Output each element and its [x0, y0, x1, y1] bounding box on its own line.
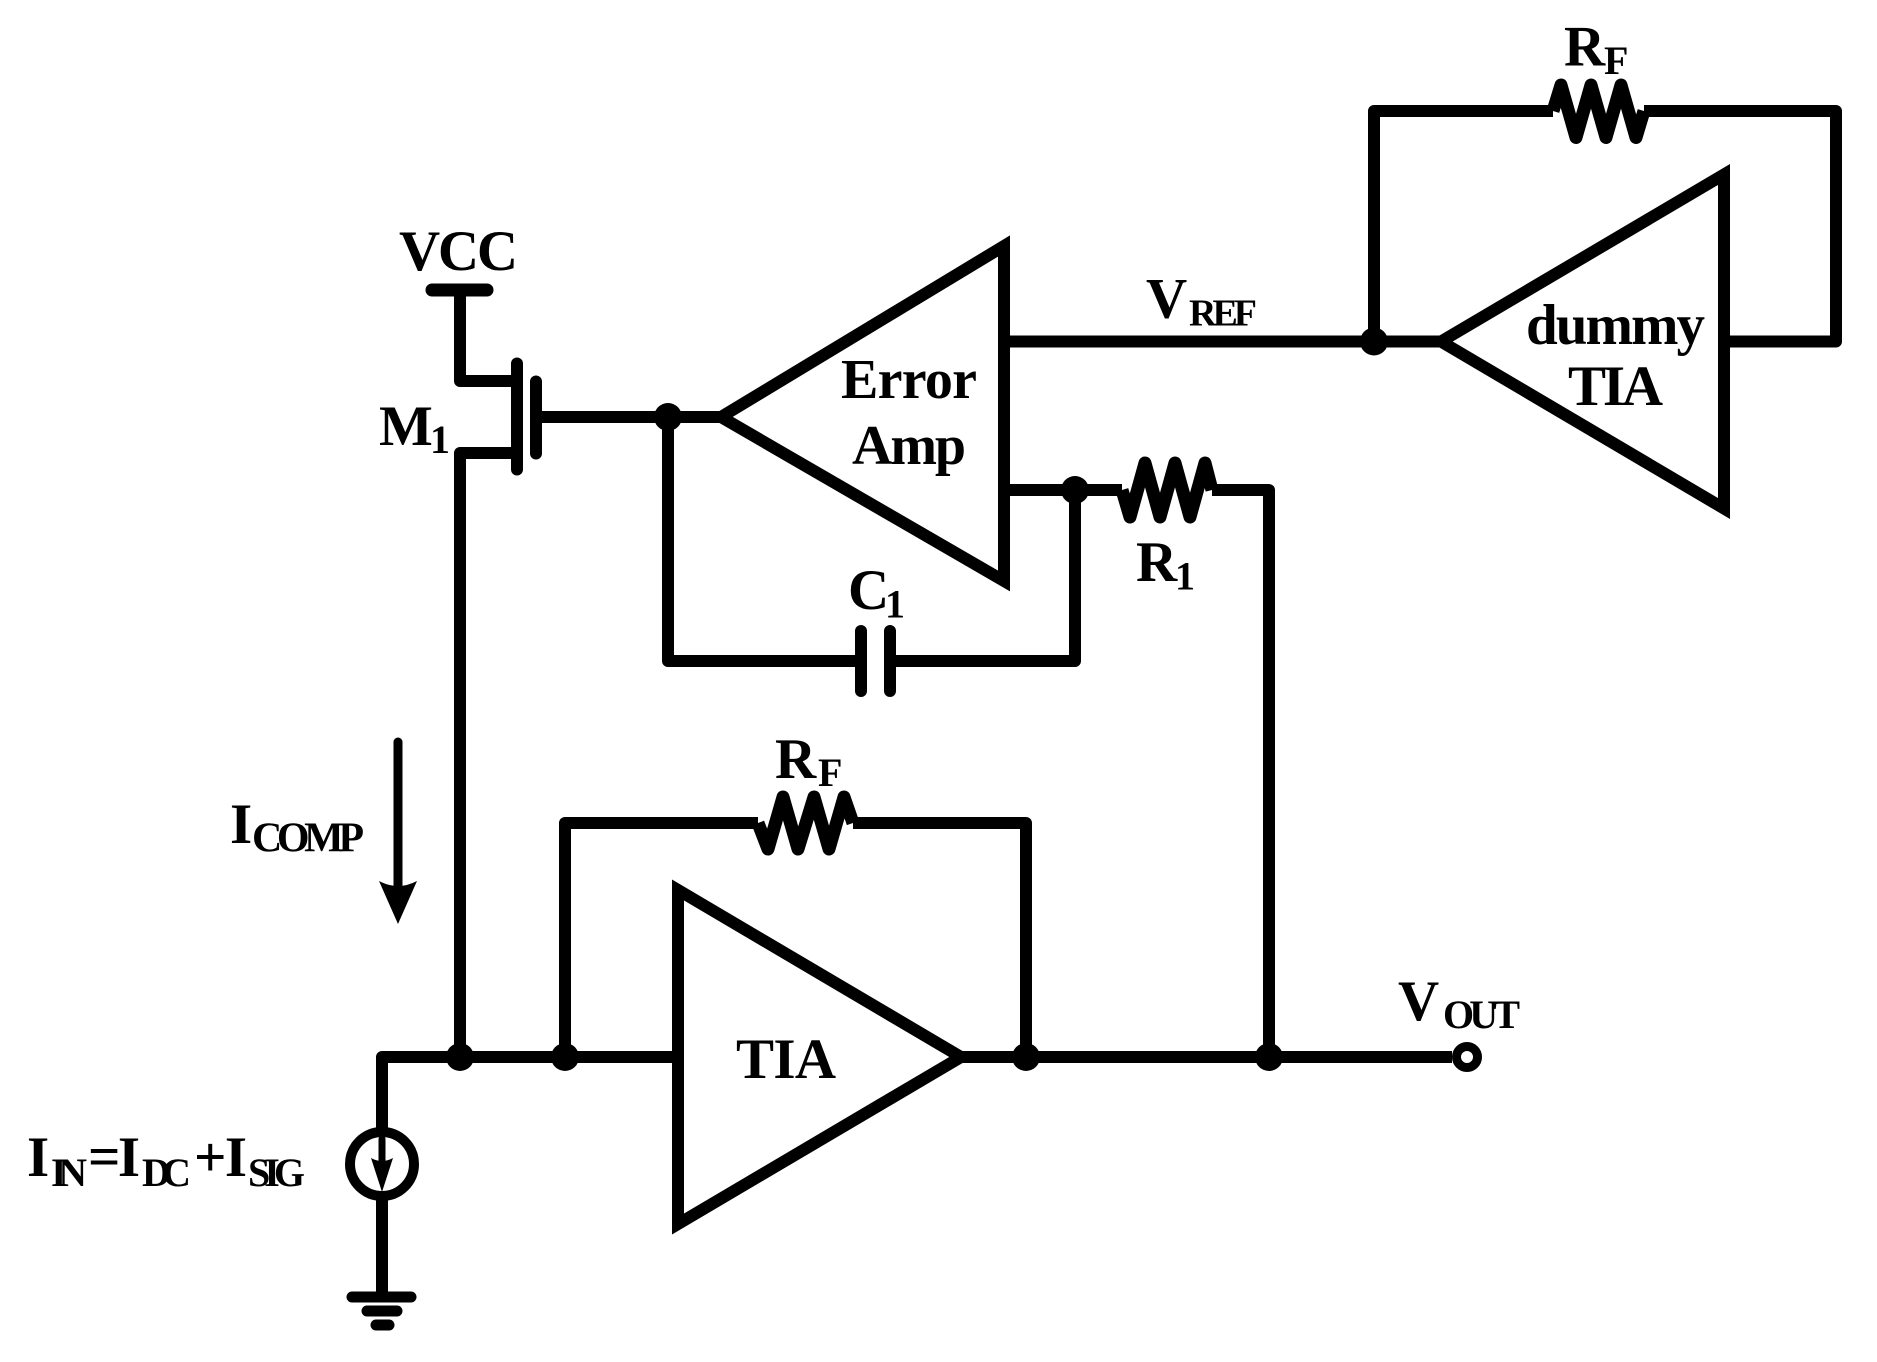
transistor M1 gate bar: [530, 382, 542, 454]
node B dot (error amp bottom input): [1061, 476, 1089, 504]
node dot: TIA output: [1012, 1043, 1040, 1071]
svg-text:+I: +I: [194, 1126, 247, 1189]
wire TIA feedback right vertical: [853, 823, 1026, 1057]
wire M1 drain down to input node: [460, 453, 517, 1057]
svg-text:dummy: dummy: [1526, 294, 1705, 357]
resistor RF (dummy) zigzag: [1553, 85, 1644, 138]
svg-text:C: C: [848, 559, 889, 622]
svg-text:1: 1: [1175, 554, 1195, 599]
svg-text:IN: IN: [51, 1150, 87, 1195]
main bus wire with input corner: [382, 1057, 1452, 1131]
wire R1 to output node: [1212, 490, 1269, 1057]
wire current source to ground: [376, 1196, 388, 1293]
ground symbol bar 1: [352, 1292, 411, 1303]
wire error amp bottom input: [1004, 484, 1122, 496]
node A dot (gate node): [654, 403, 682, 431]
svg-text:=I: =I: [88, 1126, 140, 1189]
node dot: R1 bottom at bus: [1255, 1043, 1283, 1071]
capacitor C1 left plate: [855, 631, 867, 691]
op-amp U1 Error Amp triangle: [721, 246, 1004, 581]
output terminal VOUT open circle: [1457, 1047, 1478, 1068]
svg-text:R: R: [1136, 531, 1178, 594]
svg-text:F: F: [1604, 38, 1628, 83]
svg-text:COMP: COMP: [252, 816, 364, 862]
wire C1 loop left: [668, 417, 855, 661]
wire VREF: error amp top input to dummy TIA: [1004, 336, 1445, 348]
wire C1 loop right: [896, 490, 1075, 661]
wire VCC to M1 source: [460, 284, 517, 381]
svg-text:SIG: SIG: [248, 1150, 305, 1195]
svg-text:M: M: [379, 395, 433, 458]
current arrow ICOMP: [394, 742, 403, 886]
capacitor C1 right plate: [884, 631, 896, 691]
op-amp TIA triangle: [678, 890, 961, 1224]
current source arrow: [379, 1139, 386, 1162]
wire dummy TIA feedback right and output: [1644, 111, 1836, 342]
svg-text:1: 1: [430, 417, 450, 462]
current source IIN circle: [350, 1132, 414, 1196]
resistor RF (TIA) zigzag: [758, 797, 853, 849]
svg-text:V: V: [1398, 970, 1439, 1033]
svg-text:I: I: [230, 793, 252, 856]
svg-text:OUT: OUT: [1443, 992, 1520, 1037]
resistor R1 zigzag: [1122, 463, 1212, 517]
node dot: TIA feedback left at bus: [551, 1043, 579, 1071]
svg-text:Error: Error: [841, 349, 977, 411]
svg-text:REF: REF: [1189, 293, 1257, 335]
wire TIA feedback loop: [565, 823, 758, 1057]
svg-text:R: R: [1564, 16, 1606, 79]
ground symbol bar 2: [367, 1306, 397, 1317]
svg-text:DC: DC: [142, 1150, 191, 1195]
ground symbol bar 3: [376, 1320, 389, 1331]
svg-text:Amp: Amp: [852, 415, 966, 477]
svg-text:1: 1: [885, 582, 905, 627]
wire dummy TIA feedback left vertical: [1374, 111, 1553, 342]
op-amp dummy TIA triangle: [1441, 175, 1724, 509]
svg-text:I: I: [27, 1126, 49, 1189]
svg-text:R: R: [775, 728, 817, 791]
svg-text:F: F: [818, 750, 842, 795]
svg-text:TIA: TIA: [736, 1028, 836, 1091]
svg-text:TIA: TIA: [1568, 355, 1663, 418]
transistor M1 channel bar: [511, 364, 523, 470]
VCC supply bar: [432, 284, 487, 297]
node VREF dot: [1360, 328, 1388, 356]
svg-text:VCC: VCC: [399, 220, 518, 283]
wire M1 gate to error amp input: [538, 411, 724, 423]
node dot: M1 drain at bus: [446, 1043, 474, 1071]
svg-text:V: V: [1146, 268, 1187, 331]
